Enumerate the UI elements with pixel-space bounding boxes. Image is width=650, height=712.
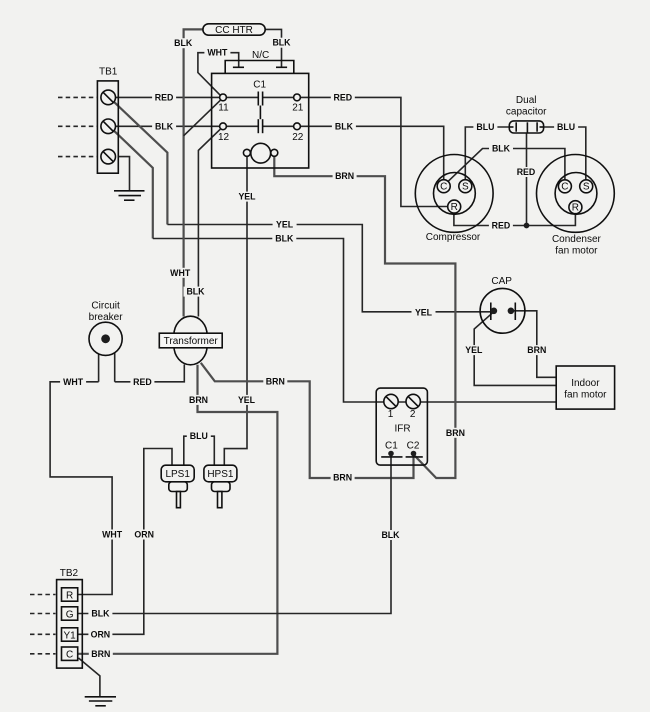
svg-text:BLK: BLK bbox=[91, 609, 110, 619]
crankcase heater CC HTR bbox=[203, 24, 265, 36]
condenser terminal R bbox=[569, 201, 582, 214]
svg-text:BLU: BLU bbox=[557, 122, 575, 132]
CAP right plate bbox=[514, 303, 516, 321]
contactor terminal 21 bbox=[294, 94, 301, 101]
contactor C1 box bbox=[212, 73, 309, 168]
contactor contact row 11-21 bbox=[226, 96, 258, 98]
svg-text:C: C bbox=[440, 182, 447, 193]
svg-text:breaker: breaker bbox=[89, 312, 124, 323]
wire: WHT circuit breaker to TB2 R bbox=[50, 382, 112, 595]
wire: BLU dual capacitor to compressor S bbox=[465, 127, 509, 180]
circuit breaker leads bbox=[98, 352, 100, 382]
svg-text:WHT: WHT bbox=[63, 377, 84, 387]
contactor terminal 12 bbox=[220, 123, 227, 130]
wire: BLU dual capacitor to condenser S bbox=[543, 127, 585, 180]
wire: BRN transformer to IFR C2 riser bbox=[201, 363, 414, 478]
svg-text:Circuit: Circuit bbox=[91, 300, 120, 311]
svg-text:WHT: WHT bbox=[102, 530, 123, 540]
svg-text:YEL: YEL bbox=[465, 345, 483, 355]
wire: RED contactor 21 to compressor R bbox=[300, 97, 447, 206]
svg-text:BLK: BLK bbox=[335, 121, 354, 131]
low pressure switch LPS1 bbox=[161, 465, 194, 508]
IFR screw 1 bbox=[384, 394, 398, 408]
TB2 terminal G bbox=[62, 607, 78, 621]
contactor linkage bbox=[259, 106, 261, 120]
contactor contact row 12-22 bbox=[226, 125, 258, 127]
svg-text:21: 21 bbox=[292, 102, 304, 113]
svg-text:YEL: YEL bbox=[238, 395, 256, 405]
svg-text:Condenser: Condenser bbox=[552, 234, 602, 245]
svg-text:R: R bbox=[66, 590, 73, 601]
run capacitor CAP bbox=[480, 288, 525, 333]
svg-text:Indoor: Indoor bbox=[571, 378, 600, 389]
svg-text:BLK: BLK bbox=[492, 144, 511, 154]
indoor fan motor box bbox=[556, 366, 614, 409]
IFR contact bar bbox=[381, 456, 402, 458]
svg-text:S: S bbox=[462, 182, 469, 193]
svg-text:BRN: BRN bbox=[446, 428, 465, 438]
contactor terminal 22 bbox=[294, 123, 301, 130]
wire: WHT from N/C to contactor 11 bbox=[198, 53, 239, 95]
svg-text:R: R bbox=[451, 202, 458, 213]
wire: RED compressor R to condenser R bbox=[454, 213, 576, 225]
svg-text:BRN: BRN bbox=[527, 345, 546, 355]
circuit breaker bbox=[89, 322, 122, 355]
wire: contactor 11 diagonal to WHT vertical bbox=[184, 100, 221, 136]
svg-text:Dual: Dual bbox=[516, 95, 537, 106]
TB2 terminal C bbox=[62, 647, 78, 661]
svg-text:HPS1: HPS1 bbox=[207, 469, 234, 480]
TB1 screw 2 bbox=[101, 119, 116, 134]
TB2 terminal R bbox=[62, 588, 78, 602]
svg-text:BRN: BRN bbox=[333, 472, 352, 482]
svg-text:G: G bbox=[66, 609, 74, 620]
svg-text:BRN: BRN bbox=[266, 376, 285, 386]
svg-text:RED: RED bbox=[492, 221, 511, 231]
svg-text:WHT: WHT bbox=[207, 48, 228, 58]
wire: TB1-1 diagonal down to YEL run bbox=[114, 102, 168, 225]
contactor terminal 11 bbox=[220, 94, 227, 101]
wire: BRN coil to IFR C2 bbox=[274, 157, 455, 479]
svg-text:2: 2 bbox=[410, 409, 416, 420]
svg-text:IFR: IFR bbox=[394, 424, 410, 435]
wire: CC HTR left BLK vertical down to transformer WHT primary bbox=[184, 29, 203, 316]
wire: TB2 C diagonal to ground bbox=[79, 658, 100, 696]
svg-text:C1: C1 bbox=[253, 80, 266, 91]
compressor terminal R bbox=[448, 200, 461, 213]
svg-text:Compressor: Compressor bbox=[426, 232, 481, 243]
svg-text:BLK: BLK bbox=[155, 121, 174, 131]
ground symbol under TB2 bbox=[85, 697, 116, 706]
svg-text:YEL: YEL bbox=[238, 192, 256, 202]
wire: BRN CAP right terminal to indoor fan motor bbox=[514, 311, 556, 378]
svg-text:YEL: YEL bbox=[276, 220, 294, 230]
wire: TB1-3 to ground bbox=[119, 157, 130, 191]
wire: BLK contactor 22 to compressor C bbox=[300, 126, 443, 180]
compressor terminal C bbox=[437, 180, 450, 193]
svg-text:11: 11 bbox=[218, 102, 229, 113]
svg-text:BLK: BLK bbox=[381, 530, 400, 540]
svg-text:RED: RED bbox=[133, 377, 152, 387]
wire: BLK run to IFR screw line bbox=[153, 239, 556, 403]
svg-text:BLK: BLK bbox=[272, 38, 291, 48]
svg-text:R: R bbox=[572, 203, 579, 214]
wire: dashed field lines into TB2 bbox=[30, 595, 56, 654]
wire: BLK TB2 G to IFR C1 bbox=[78, 456, 391, 614]
svg-text:Y1: Y1 bbox=[63, 630, 76, 641]
svg-text:C2: C2 bbox=[407, 440, 420, 451]
svg-text:RED: RED bbox=[517, 167, 536, 177]
svg-text:S: S bbox=[583, 182, 590, 193]
wire: TB1-2 diagonal down to BLK run bbox=[114, 130, 153, 238]
wire: BRN transformer to TB2 C bbox=[78, 365, 278, 654]
N/C right fixed contact bbox=[276, 66, 287, 68]
condenser terminal C bbox=[558, 180, 571, 193]
wire: BLK TB1-2 to contactor 12 bbox=[116, 125, 220, 127]
wire: RED transformer to circuit breaker bbox=[115, 365, 185, 382]
wire: BLU bracket LPS1-HPS1 bbox=[184, 436, 215, 465]
svg-text:12: 12 bbox=[218, 132, 230, 143]
wire: RED TB1-1 to contactor 11 bbox=[116, 96, 220, 98]
svg-text:capacitor: capacitor bbox=[506, 106, 547, 117]
svg-text:BLK: BLK bbox=[174, 38, 193, 48]
svg-text:BLK: BLK bbox=[275, 234, 294, 244]
IFR screw 2 bbox=[406, 394, 420, 408]
svg-text:TB1: TB1 bbox=[99, 67, 118, 78]
svg-text:BRN: BRN bbox=[91, 649, 110, 659]
dual run capacitor bbox=[509, 121, 543, 133]
wire: YEL coil to HPS1 bbox=[224, 157, 247, 466]
junction node on RED line bbox=[524, 223, 530, 229]
compressor terminal S bbox=[459, 180, 472, 193]
TB1 screw 1 bbox=[101, 90, 116, 105]
wire: RED dual capacitor centre tap down to junction bbox=[526, 133, 528, 226]
svg-text:BRN: BRN bbox=[189, 395, 208, 405]
wire: dashed field lines into TB1 bbox=[58, 97, 97, 156]
svg-text:Transformer: Transformer bbox=[164, 336, 219, 347]
svg-text:BLK: BLK bbox=[186, 287, 205, 297]
indoor fan relay IFR bbox=[376, 388, 427, 465]
svg-text:YEL: YEL bbox=[415, 307, 433, 317]
condenser fan motor bbox=[537, 155, 615, 233]
CAP left plate bbox=[490, 303, 492, 321]
wire: CC HTR right BLK down to N/C right contact bbox=[265, 29, 281, 67]
svg-text:22: 22 bbox=[292, 132, 304, 143]
svg-text:RED: RED bbox=[334, 92, 353, 102]
svg-text:C: C bbox=[561, 182, 568, 193]
svg-text:C: C bbox=[66, 650, 73, 661]
terminal block TB1 bbox=[97, 81, 118, 173]
svg-text:TB2: TB2 bbox=[60, 568, 79, 579]
svg-text:C1: C1 bbox=[385, 440, 398, 451]
svg-text:BLU: BLU bbox=[190, 431, 208, 441]
svg-text:1: 1 bbox=[388, 409, 394, 420]
TB2 terminal Y1 bbox=[62, 628, 78, 642]
IFR contact C2 bbox=[411, 451, 417, 457]
N/C contact bracket on contactor box bbox=[225, 61, 294, 74]
wire: BLK compressor C to condenser C bbox=[448, 149, 565, 182]
svg-text:RED: RED bbox=[155, 92, 174, 102]
svg-text:BRN: BRN bbox=[335, 171, 354, 181]
svg-text:CC HTR: CC HTR bbox=[215, 25, 253, 36]
IFR contact C1 bbox=[388, 451, 394, 457]
terminal block TB2 bbox=[57, 580, 83, 669]
condenser terminal S bbox=[580, 180, 593, 193]
svg-text:LPS1: LPS1 bbox=[165, 469, 190, 480]
wire colour labels bbox=[60, 38, 578, 659]
ground symbol under TB1 bbox=[114, 191, 145, 200]
svg-text:ORN: ORN bbox=[134, 530, 154, 540]
wire: YEL run to CAP bbox=[167, 225, 491, 312]
svg-text:ORN: ORN bbox=[91, 629, 111, 639]
N/C left fixed contact bbox=[233, 66, 244, 68]
transformer bbox=[159, 316, 222, 365]
wire: ORN TB2 Y1 up to LPS1 bbox=[78, 449, 172, 635]
wire: contactor 12 diagonal to transformer BLK primary bbox=[198, 129, 220, 316]
compressor motor bbox=[415, 155, 493, 233]
svg-text:CAP: CAP bbox=[491, 276, 512, 287]
svg-text:BLU: BLU bbox=[476, 122, 494, 132]
svg-text:N/C: N/C bbox=[252, 50, 269, 61]
TB1 screw 3 bbox=[101, 149, 116, 164]
high pressure switch HPS1 bbox=[204, 465, 237, 508]
svg-text:fan motor: fan motor bbox=[555, 245, 598, 256]
svg-text:WHT: WHT bbox=[170, 268, 191, 278]
contactor coil bbox=[251, 143, 271, 163]
svg-text:fan motor: fan motor bbox=[564, 390, 607, 401]
wire: YEL CAP left terminal down to indoor fan motor bbox=[474, 313, 556, 385]
